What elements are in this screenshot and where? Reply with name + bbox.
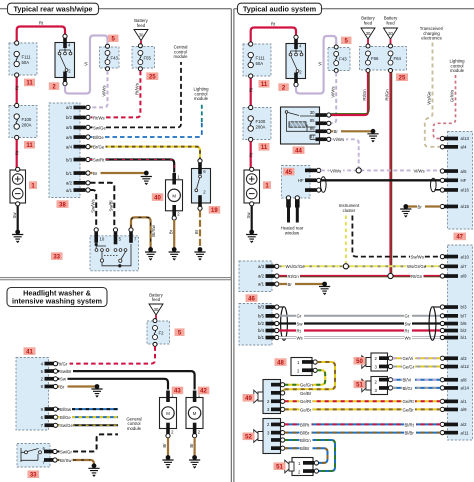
svg-text:F43: F43: [111, 56, 119, 61]
node: transceiver/charging electronics: [420, 26, 444, 41]
svg-text:11: 11: [26, 81, 33, 87]
svg-text:33: 33: [30, 472, 37, 478]
svg-text:Br/Sw: Br/Sw: [151, 224, 156, 236]
svg-text:Rt/Ws: Rt/Ws: [93, 115, 105, 120]
svg-text:50A: 50A: [256, 61, 264, 66]
label 44: [293, 146, 305, 154]
svg-text:a/13: a/13: [461, 136, 470, 141]
ground (switch 19): [198, 247, 203, 252]
shield (module47 side): [431, 178, 437, 192]
label 51: [354, 381, 366, 389]
svg-text:window: window: [285, 230, 300, 235]
wire HF: box45 to module47 (coax): [321, 179, 441, 181]
label 48: [275, 358, 287, 366]
speaker symbol (51): [362, 379, 371, 392]
svg-text:Vi/Ws: Vi/Ws: [102, 85, 107, 96]
wire Sw/Bl: module38 a/2 to switch33 pin5: [90, 183, 114, 228]
svg-text:F111: F111: [22, 55, 32, 60]
svg-text:a/2: a/2: [66, 181, 73, 186]
wire Ws: module46 b/1 to module47 b/1: [279, 336, 440, 338]
wire Br: module47 a/15 to ground: [408, 205, 441, 207]
svg-text:intensive washing system: intensive washing system: [12, 296, 103, 305]
svg-text:Rt/Ws: Rt/Ws: [135, 83, 140, 95]
wire Bl/Br: connector52 pin3 to module47 a/11: [285, 432, 441, 434]
svg-text:module: module: [173, 54, 188, 59]
svg-text:Ws/Gr/Ge: Ws/Gr/Ge: [407, 264, 427, 269]
wire Rt: module46 b/4 to module47 b/2: [279, 329, 440, 331]
switch 19 (rear wiper switch): [192, 159, 211, 211]
label 51: [274, 462, 286, 470]
svg-text:Rt/Gn: Rt/Gn: [385, 89, 390, 101]
svg-text:a/14: a/14: [461, 386, 470, 391]
relay 2 (audio): [286, 35, 306, 86]
svg-text:Rt/Gn: Rt/Gn: [411, 274, 423, 279]
wire Bl/Ge: module38 a/6 to lighting control module: [90, 122, 202, 137]
connector 51 (front speaker left): [371, 377, 393, 395]
svg-text:Ge/Rt: Ge/Rt: [300, 399, 312, 404]
svg-text:Sw/Ws: Sw/Ws: [90, 199, 95, 212]
svg-text:87: 87: [310, 134, 315, 139]
wire Br: relay44 pin86 to ground: [331, 130, 372, 132]
svg-text:Vi/Ws: Vi/Ws: [333, 137, 344, 142]
svg-text:85: 85: [310, 118, 315, 123]
svg-text:Br: Br: [162, 443, 167, 448]
svg-text:a/9: a/9: [461, 274, 468, 279]
ground (relay 44): [371, 129, 376, 134]
wire Br: module38 b/1 to ground: [90, 172, 146, 174]
node: junction Vi/Ws: [356, 168, 361, 173]
label 5: [341, 37, 352, 45]
wire Gr/Ws: lighting control to module47 a/13: [433, 75, 455, 139]
svg-text:a/2: a/2: [258, 274, 265, 279]
svg-text:cluster: cluster: [343, 208, 356, 213]
svg-text:b/6: b/6: [461, 321, 468, 326]
fuse F55: [132, 44, 155, 71]
svg-text:Sw: Sw: [297, 321, 304, 326]
svg-text:Br: Br: [168, 229, 173, 234]
node: junction F64 feed: [388, 273, 393, 278]
wire Gr: module46 b/5 to module47 b/7: [279, 315, 440, 317]
svg-text:Br/Sw: Br/Sw: [60, 458, 72, 463]
shield (box45 side): [321, 189, 322, 191]
svg-text:Sw: Sw: [12, 212, 17, 219]
fuse F111 50A (audio): [243, 42, 271, 78]
svg-text:49: 49: [245, 396, 252, 402]
label 42: [198, 387, 210, 395]
svg-text:F43: F43: [339, 57, 347, 62]
wire Bl/Sw: module41 pin9 to general control module: [58, 408, 118, 410]
wire Rt: F111 to F100: [16, 75, 18, 104]
svg-text:electronics: electronics: [421, 36, 442, 41]
svg-text:30: 30: [366, 31, 371, 36]
svg-text:b/3: b/3: [66, 157, 73, 162]
svg-text:b/2: b/2: [461, 328, 468, 333]
svg-text:Bl/Br: Bl/Br: [300, 446, 310, 451]
wire Ge/Br: connector48 pin1 to connector49: [283, 362, 335, 393]
svg-text:b/1: b/1: [258, 335, 265, 340]
node: general control module (bottom left): [126, 416, 141, 431]
svg-text:11: 11: [26, 143, 33, 149]
label 5: [108, 35, 119, 43]
switch 33 (wash/wipe switch): [90, 228, 139, 271]
module 46 box A (radio upper): [239, 261, 279, 292]
svg-text:Ws: Ws: [405, 335, 411, 340]
ground (battery audio): [249, 230, 254, 235]
svg-text:Gr/Ws: Gr/Ws: [450, 90, 455, 102]
svg-text:Ge/Vi: Ge/Vi: [403, 356, 414, 361]
svg-text:F100: F100: [256, 119, 266, 124]
svg-text:42: 42: [200, 389, 207, 395]
label 38: [57, 200, 69, 208]
svg-text:a/1: a/1: [258, 282, 265, 287]
label 11: [259, 80, 270, 88]
svg-text:Sw/Gr: Sw/Gr: [60, 449, 73, 454]
svg-text:38: 38: [59, 202, 66, 208]
ground (battery): [15, 230, 20, 235]
motor 42 (intensive washer pump): [186, 391, 203, 438]
battery feed triangle 30 (F64): [384, 16, 399, 46]
svg-text:b/5: b/5: [258, 314, 265, 319]
wire Ws/Gr/Ge: module46 a/3 to module47 a/7: [279, 265, 440, 267]
svg-text:b/3: b/3: [258, 305, 265, 310]
svg-text:Sw: Sw: [405, 321, 412, 326]
svg-text:a/6: a/6: [66, 135, 73, 140]
wire Vi/Ws: box45 to module47 a/5: [321, 169, 441, 171]
svg-text:200A: 200A: [22, 122, 32, 127]
label 11: [259, 143, 270, 151]
svg-text:25: 25: [149, 74, 156, 80]
svg-text:Ge/Br: Ge/Br: [300, 391, 312, 396]
svg-text:Sw/Ge: Sw/Ge: [60, 423, 74, 428]
svg-text:feed: feed: [137, 23, 146, 28]
svg-text:a/7: a/7: [461, 264, 468, 269]
svg-text:Typical rear wash/wipe: Typical rear wash/wipe: [14, 5, 93, 14]
svg-text:Vi/Ws: Vi/Ws: [330, 86, 335, 97]
svg-text:25: 25: [399, 75, 406, 81]
wire Rt/Gn: F64 to junction: [391, 73, 392, 274]
node: central control module (left): [173, 45, 188, 60]
battery G1 (audio): [244, 167, 260, 206]
svg-text:30: 30: [310, 110, 315, 115]
label 43: [172, 387, 184, 395]
svg-text:Sw/Ge: Sw/Ge: [93, 125, 107, 130]
svg-text:b/2: b/2: [66, 115, 73, 120]
svg-text:a/1: a/1: [461, 399, 468, 404]
module 46 box B (radio lower): [239, 304, 279, 346]
wire shield drain right: module47 b/3: [433, 306, 440, 308]
svg-text:47: 47: [456, 235, 463, 241]
node: junction instrument cluster tap: [343, 264, 348, 269]
label 2: [49, 82, 60, 90]
svg-text:Br/Ge: Br/Ge: [93, 145, 105, 150]
svg-text:30: 30: [139, 33, 144, 38]
svg-text:51: 51: [356, 383, 363, 389]
wire Br: motor40 to ground: [173, 220, 175, 248]
ground (switch 33): [148, 247, 153, 252]
svg-text:a/5: a/5: [66, 125, 73, 130]
svg-text:b/7: b/7: [461, 314, 468, 319]
wire Vi/Ws: F43 to module38 a/3: [90, 71, 108, 108]
battery feed triangle 30 (F66): [361, 16, 376, 46]
wire Vi/Ws: F43 to relay44 pin85: [331, 73, 336, 124]
connector 50 (front speaker right): [371, 353, 393, 371]
svg-text:200A: 200A: [256, 124, 266, 129]
svg-text:a/4: a/4: [461, 145, 468, 150]
svg-text:F111: F111: [256, 56, 266, 61]
wire Rt: F111 to relay 2: [17, 27, 65, 44]
node: lighting control module (left): [193, 87, 209, 102]
wire Ge/Br: connector49 pin3 to module47 a/9: [285, 408, 441, 410]
motor 43 (headlight washer pump): [160, 391, 177, 438]
svg-text:F55: F55: [144, 56, 152, 61]
svg-text:Br: Br: [60, 384, 65, 389]
svg-text:Bl/Gr: Bl/Gr: [403, 386, 413, 391]
wire Br: module46 a/1 to ground: [279, 283, 323, 285]
wire label Ge/Br: [300, 390, 313, 395]
svg-text:a/8: a/8: [461, 377, 468, 382]
ground (pin 8): [95, 384, 100, 389]
svg-text:Ge/Br: Ge/Br: [403, 407, 415, 412]
svg-text:Vi/Ws: Vi/Ws: [414, 168, 425, 173]
svg-text:Br: Br: [334, 129, 339, 134]
svg-text:Sw: Sw: [246, 212, 251, 219]
connector 48 (rear speaker left): [291, 358, 317, 376]
wire Bl/Gr: connector51 pin3 to module47 a/14: [393, 387, 441, 389]
svg-text:module: module: [450, 68, 465, 73]
battery G1: [10, 167, 26, 206]
svg-text:Bl/Rt: Bl/Rt: [300, 422, 310, 427]
wire Rt: F111 to F100 (audio): [250, 76, 252, 106]
ground (b/1): [144, 171, 149, 176]
svg-text:a/3: a/3: [66, 105, 73, 110]
wire Rt/Gr: F2 to module41 pin4: [56, 346, 156, 363]
wire Bl/Ge: module41 pin6 to general control module: [58, 416, 118, 418]
svg-text:50A: 50A: [22, 60, 30, 65]
label 46: [246, 294, 258, 302]
wire Sw: battery to ground: [17, 206, 19, 231]
label 19: [209, 206, 221, 214]
module 47 box A (amplifier upper): [440, 132, 472, 230]
svg-text:Bl/Ge: Bl/Ge: [93, 135, 104, 140]
wire Ge/Rt: connector49 pin2 to module47 a/1: [285, 400, 441, 402]
title: Typical rear wash/wipe: [8, 3, 99, 14]
wire Rt/Gn: F66 to relay44 pin30: [331, 73, 369, 116]
svg-text:Sw/Br: Sw/Br: [60, 369, 72, 374]
svg-text:b/4: b/4: [258, 328, 265, 333]
wire Br: motor43 to ground: [167, 438, 169, 456]
svg-text:F64: F64: [394, 56, 402, 61]
svg-text:M: M: [193, 411, 197, 416]
label 52: [243, 433, 255, 441]
label 47: [454, 233, 467, 241]
ground (a/15): [403, 204, 408, 209]
wire Br: motor42 to ground: [194, 438, 196, 456]
label 1: [263, 181, 271, 189]
svg-text:Sw/Rt: Sw/Rt: [93, 157, 105, 162]
title: Typical audio system: [238, 3, 322, 14]
title: Headlight washer & intensive washing system: [7, 288, 107, 307]
wire Br/Ge: module38 a/4 to switch19 pin6: [90, 147, 200, 159]
svg-text:Ge/Gr: Ge/Gr: [403, 364, 415, 369]
wire Rt: F111 to relay 2 (audio): [251, 28, 296, 45]
battery feed triangle 30 (F55): [134, 18, 149, 45]
ground (motor 40): [172, 247, 177, 252]
svg-text:43: 43: [174, 389, 181, 395]
fuse F100 200A (audio): [243, 105, 271, 141]
svg-text:a/3: a/3: [258, 264, 265, 269]
motor 40 (rear wiper motor): [166, 173, 183, 220]
speaker symbol (52): [254, 430, 263, 443]
wire Br/Sw: switch33 pin7 to ground: [131, 217, 151, 248]
svg-text:11: 11: [261, 82, 268, 88]
svg-text:41: 41: [26, 349, 33, 355]
svg-text:a/10: a/10: [461, 254, 470, 259]
svg-text:a/15: a/15: [461, 204, 470, 209]
label 5: [175, 328, 185, 336]
fuse F43: [100, 44, 120, 70]
wire Ge/Gr: connector50 pin3 to module47 a/12: [393, 366, 441, 368]
fuse F100 200A: [9, 103, 37, 139]
label 2: [278, 83, 289, 91]
wire Rt: F100 to battery: [16, 140, 18, 169]
speaker symbol (50): [362, 356, 371, 369]
speaker symbol (51 bottom): [285, 460, 294, 473]
svg-text:Sw: Sw: [60, 377, 67, 382]
module 41 (washer control unit): [16, 358, 58, 431]
module 47 box B (amplifier lower): [440, 245, 472, 440]
fuse F43 (audio): [328, 45, 350, 73]
svg-text:33: 33: [53, 254, 60, 260]
ground (motor 42): [192, 455, 197, 460]
label 11: [24, 79, 35, 87]
svg-text:Typical audio system: Typical audio system: [243, 5, 317, 14]
label 25: [396, 73, 408, 81]
wire Bl/Br: connector52 to connector51(bottom) pin1: [285, 448, 328, 463]
svg-text:a/11: a/11: [461, 430, 470, 435]
fuse F111 50A: [9, 41, 37, 77]
svg-text:M: M: [172, 193, 176, 198]
connector 49 (speaker harness): [263, 380, 285, 414]
svg-text:b/3: b/3: [461, 305, 468, 310]
svg-text:Br: Br: [93, 171, 98, 176]
wire Bl/Rt: connector52 pin2 to module47 a/2: [285, 423, 441, 425]
relay 2 (wash/wipe relay): [55, 34, 75, 85]
ground (switch 33 pin7): [92, 463, 97, 468]
ground (module46 a/1): [322, 282, 327, 287]
wire Sw/Ws: instrument cluster to module47 a/10: [352, 216, 440, 257]
wire shield drain left: module46 b/3: [279, 306, 284, 308]
switch 33 (washer switch, bottom): [17, 444, 57, 468]
connector 51 (rear right speaker): [292, 458, 319, 476]
svg-text:86: 86: [310, 126, 315, 131]
battery feed triangle 30 (F2): [149, 292, 164, 320]
label 25: [146, 72, 158, 80]
svg-text:a/5: a/5: [461, 169, 468, 174]
fuse box F66 / F64: [360, 44, 407, 73]
svg-text:a/9: a/9: [461, 407, 468, 412]
svg-text:Sw/Bl: Sw/Bl: [108, 200, 113, 211]
svg-text:HF: HF: [298, 178, 304, 183]
svg-text:Rt/Gn: Rt/Gn: [362, 89, 367, 101]
svg-text:40: 40: [154, 195, 161, 201]
wire Br: switch19 to ground: [199, 210, 201, 248]
wire Sw/Rt: module38 b/3 to motor 40: [90, 160, 174, 173]
svg-text:Br: Br: [194, 229, 199, 234]
label 50: [354, 357, 366, 365]
svg-text:Sw/Ws: Sw/Ws: [411, 255, 424, 260]
fuse F2: [147, 319, 170, 347]
wire Sw: module46 b/2 to module47 b/6: [279, 322, 440, 324]
svg-text:a/16: a/16: [461, 188, 470, 193]
wire Sw/Br: module41 pin5 to motor 42: [58, 371, 195, 389]
svg-text:Br: Br: [418, 204, 423, 209]
wire Rt/Gn: module46 a/2 to module47 a/9: [279, 275, 440, 278]
svg-text:30: 30: [388, 31, 393, 36]
wire Sw: battery to ground (audio): [251, 206, 253, 231]
svg-text:a/12: a/12: [461, 364, 470, 369]
svg-text:M: M: [166, 411, 170, 416]
wire Sw/Ws: module38 a/1 to switch33 pin10: [90, 190, 96, 227]
svg-text:45: 45: [285, 170, 292, 176]
svg-text:module: module: [194, 96, 209, 101]
wire Bl/Vi: connector51 pin2 to module47 a/8: [393, 379, 441, 381]
svg-text:Ge/Gn: Ge/Gn: [300, 383, 313, 388]
svg-text:50: 50: [356, 359, 363, 365]
label 33: [28, 470, 40, 478]
svg-text:module: module: [127, 426, 142, 431]
connector 52 (rear speaker harness): [263, 419, 285, 454]
svg-text:46: 46: [248, 296, 255, 302]
svg-text:Bl/Sw: Bl/Sw: [60, 407, 72, 412]
svg-text:feed: feed: [152, 297, 161, 302]
label 1: [29, 181, 37, 189]
svg-text:Ws/Ge: Ws/Ge: [427, 91, 432, 105]
node: heated rear window: [281, 226, 304, 236]
svg-text:feed: feed: [364, 20, 373, 25]
svg-text:Br: Br: [189, 443, 194, 448]
svg-text:Vi/Ws: Vi/Ws: [330, 168, 341, 173]
svg-text:30: 30: [154, 307, 159, 312]
wire label Ge/Gn: [300, 382, 313, 387]
label 11: [24, 141, 35, 149]
relay 44 (audio relay): [281, 107, 331, 144]
wire Rt/Ws: F55 to module38 b/2: [90, 71, 140, 118]
label 40: [152, 193, 164, 201]
label 33: [51, 252, 63, 260]
svg-text:b/2: b/2: [258, 321, 265, 326]
wire Rt: F100 to battery (audio): [250, 142, 252, 169]
speaker symbol (49): [254, 390, 263, 403]
wire Ge (instrument cluster drop): [345, 216, 347, 264]
svg-text:Ws/Gr/Ge: Ws/Gr/Ge: [286, 264, 306, 269]
wire Br/Sw: switch33 pin7 to ground: [57, 460, 94, 465]
svg-text:Bl/Br: Bl/Br: [300, 431, 310, 436]
svg-text:Vi: Vi: [317, 62, 322, 66]
label 41: [24, 347, 36, 355]
svg-text:19: 19: [211, 208, 218, 214]
svg-text:Bl/Rt: Bl/Rt: [405, 422, 415, 427]
svg-text:a/3: a/3: [461, 356, 468, 361]
wires: box45 to heated rear window: [289, 200, 298, 223]
wire Vi: relay 2 to F43: [65, 36, 108, 94]
svg-text:Ge/Br: Ge/Br: [300, 407, 312, 412]
wire Sw/Ge: module41 pin7 to general control module: [58, 424, 118, 426]
svg-text:10: 10: [100, 237, 105, 242]
label 49: [243, 394, 255, 402]
wire Ge/Vi: connector50 pin2 to module47 a/3: [393, 357, 441, 359]
svg-text:Ge/Rt: Ge/Rt: [403, 399, 415, 404]
svg-text:HF: HF: [461, 178, 467, 183]
